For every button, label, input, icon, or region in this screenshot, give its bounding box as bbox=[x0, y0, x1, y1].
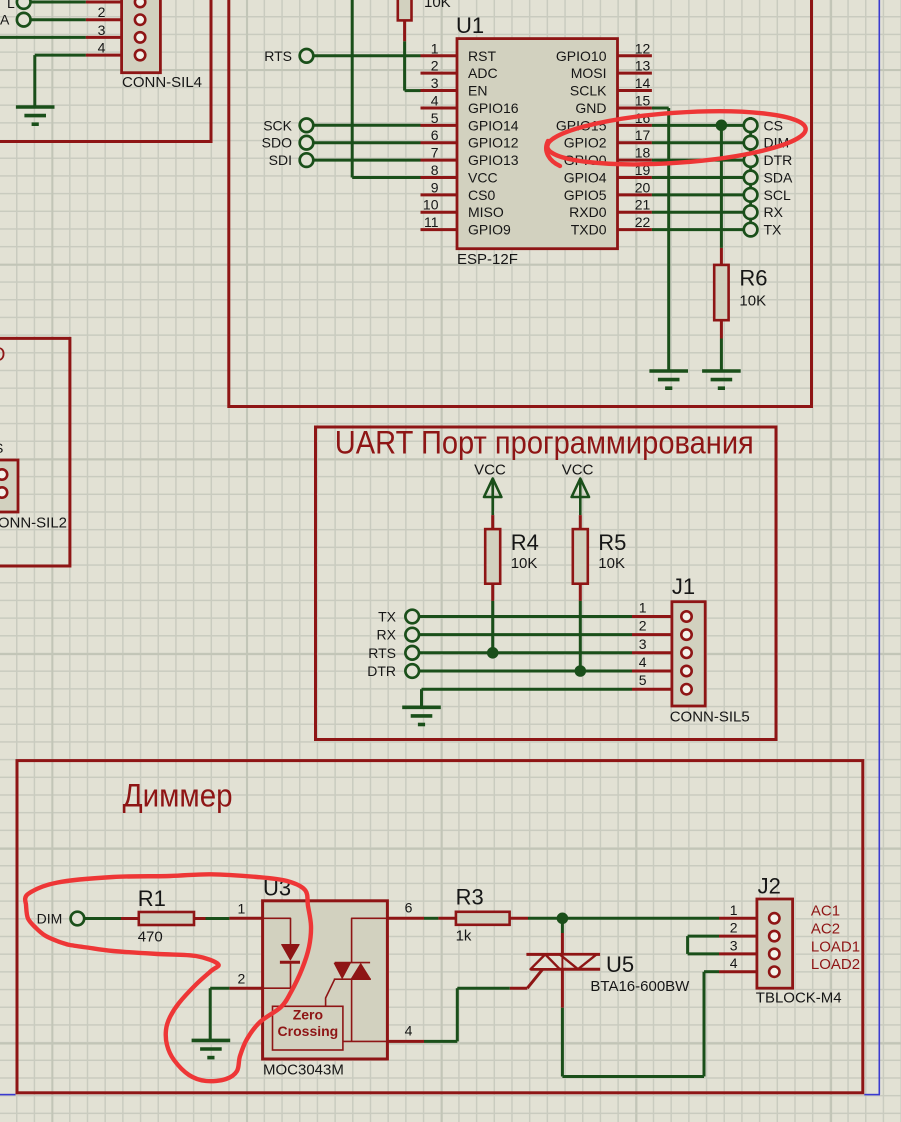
sheet border blue vertical bbox=[878, 0, 880, 1095]
svg-text:2: 2 bbox=[639, 618, 647, 634]
sub-circuit box Dimmer bbox=[17, 761, 863, 1093]
svg-text:4: 4 bbox=[639, 654, 647, 670]
svg-text:Диммер: Диммер bbox=[123, 778, 233, 814]
svg-text:MOSI: MOSI bbox=[571, 65, 607, 81]
wire DIM to R1 bbox=[84, 917, 121, 920]
svg-text:20: 20 bbox=[635, 179, 651, 195]
wire GND pin15 to ground bbox=[652, 107, 669, 110]
CONN-SIL4 pin circles bbox=[135, 0, 145, 7]
optocoupler U3 body bbox=[263, 901, 388, 1059]
svg-text:3: 3 bbox=[730, 937, 738, 953]
svg-text:RX: RX bbox=[764, 204, 784, 220]
pin stubs J? CONN-SIL4 bbox=[86, 1, 135, 4]
svg-text:3: 3 bbox=[431, 75, 439, 91]
wire R1 to U3 pin1 bbox=[206, 917, 230, 920]
svg-text:4: 4 bbox=[98, 40, 106, 56]
connector CONN-SIL4 body bbox=[122, 0, 161, 73]
sub-circuit box (top-left) bbox=[0, 0, 211, 142]
sub-circuit box (left, CONN-SIL2) bbox=[0, 338, 70, 566]
J2 pin stubs bbox=[719, 917, 769, 920]
svg-text:15: 15 bbox=[635, 92, 651, 108]
svg-text:TXD0: TXD0 bbox=[571, 222, 607, 238]
svg-text:10K: 10K bbox=[598, 555, 625, 572]
svg-text:GPIO13: GPIO13 bbox=[468, 152, 519, 168]
wire U5 to J2 pin4 bbox=[561, 1008, 564, 1077]
wire R4 down bbox=[491, 601, 494, 653]
resistor R1 bbox=[121, 917, 139, 920]
wire R5 down bbox=[579, 601, 582, 671]
svg-text:RXD0: RXD0 bbox=[569, 204, 607, 220]
U1 left pin stubs 1-11 bbox=[421, 54, 458, 57]
U3 internal triac bbox=[335, 962, 370, 964]
CONN-SIL2 pin circles bbox=[0, 469, 7, 479]
svg-text:4: 4 bbox=[431, 92, 439, 108]
chip U1 body bbox=[457, 39, 618, 249]
terminal SCL bbox=[744, 188, 758, 202]
svg-text:VCC: VCC bbox=[474, 462, 506, 479]
svg-text:GPIO4: GPIO4 bbox=[564, 169, 607, 185]
wire row4 to ground bbox=[35, 54, 86, 57]
wire R6 to ground bbox=[720, 339, 723, 372]
svg-text:GPIO10: GPIO10 bbox=[556, 48, 607, 64]
U5 gate lead bbox=[510, 987, 528, 990]
wire pin4 to U5 gate bbox=[424, 1040, 457, 1043]
wire TX to J1 bbox=[419, 615, 632, 618]
svg-text:5: 5 bbox=[431, 110, 439, 126]
svg-text:SDA: SDA bbox=[764, 169, 793, 185]
svg-text:BTA16-600BW: BTA16-600BW bbox=[590, 978, 690, 995]
wire RTS to pin1 bbox=[313, 54, 421, 57]
junction node (R5) bbox=[575, 666, 586, 677]
connector J2 body bbox=[757, 899, 793, 988]
wire R3 to J2 pin1 bbox=[528, 917, 719, 920]
triac U5 bbox=[561, 918, 564, 933]
J1 pin stubs bbox=[632, 615, 681, 618]
svg-text:SCK: SCK bbox=[263, 117, 292, 133]
svg-text:DTR: DTR bbox=[367, 663, 396, 679]
svg-text:GPIO12: GPIO12 bbox=[468, 135, 519, 151]
svg-text:3: 3 bbox=[639, 636, 647, 652]
svg-text:470: 470 bbox=[138, 929, 163, 946]
svg-text:TX: TX bbox=[378, 609, 397, 625]
connector J1 body bbox=[672, 602, 705, 706]
terminal chain stub bbox=[749, 117, 752, 230]
junction node (R4) bbox=[487, 648, 498, 659]
wire SCK to pin5 bbox=[313, 124, 421, 127]
resistor R4 bbox=[491, 515, 494, 529]
svg-text:J2: J2 bbox=[758, 873, 781, 898]
svg-text:10K: 10K bbox=[511, 555, 538, 572]
wire RX to J1 bbox=[419, 633, 632, 636]
svg-text:MOC3043M: MOC3043M bbox=[263, 1062, 344, 1079]
svg-text:CONN-SIL5: CONN-SIL5 bbox=[670, 709, 750, 726]
terminal DTR bbox=[744, 153, 758, 167]
annotation loop (DIM/R1/ground) bbox=[25, 874, 311, 1081]
svg-text:J1: J1 bbox=[672, 574, 695, 599]
svg-text:AC1: AC1 bbox=[811, 903, 840, 920]
wire SDI to pin7 bbox=[313, 159, 421, 162]
svg-text:LOAD2: LOAD2 bbox=[811, 956, 860, 973]
svg-text:1: 1 bbox=[639, 600, 647, 616]
svg-text:12: 12 bbox=[635, 40, 651, 56]
svg-text:R3: R3 bbox=[456, 885, 484, 910]
svg-text:DIM: DIM bbox=[37, 911, 63, 927]
svg-text:GPIO5: GPIO5 bbox=[564, 187, 607, 203]
svg-text:TX: TX bbox=[764, 222, 783, 238]
svg-text:R1: R1 bbox=[138, 886, 166, 911]
svg-text:1k: 1k bbox=[456, 928, 472, 945]
U3 LED diode bbox=[282, 945, 300, 960]
svg-text:AC2: AC2 bbox=[811, 921, 840, 938]
svg-text:CONN-SIL2: CONN-SIL2 bbox=[0, 515, 67, 532]
U3 zero crossing block bbox=[273, 1006, 343, 1050]
U3 internal triac wiring bbox=[352, 918, 388, 962]
svg-text:TBLOCK-M4: TBLOCK-M4 bbox=[756, 990, 842, 1007]
svg-text:S: S bbox=[0, 440, 3, 456]
svg-text:4: 4 bbox=[730, 955, 738, 971]
svg-text:3: 3 bbox=[98, 22, 106, 38]
svg-text:CONN-SIL4: CONN-SIL4 bbox=[122, 74, 202, 91]
svg-text:R4: R4 bbox=[511, 530, 539, 555]
svg-text:R6: R6 bbox=[739, 266, 767, 291]
resistor R3 bbox=[438, 917, 456, 920]
svg-text:MISO: MISO bbox=[468, 204, 504, 220]
svg-text:ADC: ADC bbox=[468, 65, 498, 81]
svg-text:D: D bbox=[0, 344, 5, 366]
svg-text:6: 6 bbox=[431, 127, 439, 143]
wire J2 pins 2-3 link bbox=[688, 935, 719, 938]
ground (U3) bbox=[192, 1040, 231, 1057]
svg-text:8: 8 bbox=[431, 162, 439, 178]
svg-text:R5: R5 bbox=[598, 530, 626, 555]
svg-text:6: 6 bbox=[405, 900, 413, 916]
svg-text:14: 14 bbox=[635, 75, 651, 91]
junction node GPIO15/R6 bbox=[716, 120, 727, 131]
svg-text:13: 13 bbox=[635, 58, 651, 74]
svg-text:GPIO16: GPIO16 bbox=[468, 100, 519, 116]
svg-text:Crossing: Crossing bbox=[278, 1023, 339, 1039]
svg-text:RTS: RTS bbox=[368, 645, 396, 661]
U3 pin2 stub bbox=[229, 987, 262, 990]
svg-text:GND: GND bbox=[575, 100, 606, 116]
svg-text:4: 4 bbox=[405, 1023, 413, 1039]
svg-text:U1: U1 bbox=[456, 13, 484, 38]
U3 pin4 stub bbox=[387, 1040, 424, 1043]
wire DTR to J1 bbox=[419, 670, 632, 673]
svg-text:22: 22 bbox=[635, 214, 651, 230]
svg-text:18: 18 bbox=[635, 145, 651, 161]
svg-text:2: 2 bbox=[238, 971, 246, 987]
svg-text:1: 1 bbox=[431, 40, 439, 56]
wire J1 pin5 to ground bbox=[422, 688, 633, 691]
U3 pin1 stub bbox=[229, 917, 262, 920]
svg-text:SDI: SDI bbox=[269, 152, 292, 168]
svg-text:9: 9 bbox=[431, 179, 439, 195]
svg-text:11: 11 bbox=[424, 214, 439, 230]
svg-text:10: 10 bbox=[423, 197, 439, 213]
U1 right pin stubs 12-22 bbox=[618, 54, 652, 57]
svg-text:GPIO9: GPIO9 bbox=[468, 222, 511, 238]
svg-text:DTR: DTR bbox=[764, 152, 793, 168]
sub-circuit box (U1 / ESP-12F) bbox=[229, 0, 812, 407]
resistor R5 bbox=[579, 515, 582, 529]
svg-text:A: A bbox=[0, 12, 10, 28]
svg-text:CS: CS bbox=[764, 117, 783, 133]
sub-circuit box UART bbox=[316, 427, 777, 740]
wire VCC vertical bbox=[351, 0, 354, 178]
wire U3 pin2 to ground bbox=[210, 987, 229, 990]
svg-text:RTS: RTS bbox=[264, 48, 292, 64]
J1 pin circles bbox=[681, 611, 691, 621]
terminal TX bbox=[744, 223, 758, 237]
wire SDO to pin6 bbox=[313, 141, 421, 144]
svg-text:SDO: SDO bbox=[262, 135, 292, 151]
svg-text:1: 1 bbox=[730, 902, 738, 918]
terminal RX bbox=[744, 205, 758, 219]
svg-text:VCC: VCC bbox=[562, 462, 594, 479]
svg-text:U5: U5 bbox=[606, 952, 634, 977]
svg-text:Zero: Zero bbox=[293, 1007, 323, 1023]
svg-text:GPIO14: GPIO14 bbox=[468, 117, 519, 133]
svg-text:2: 2 bbox=[431, 58, 439, 74]
U3 internal pin4 wiring bbox=[343, 1040, 388, 1042]
sheet border blue bottom bbox=[0, 1094, 16, 1096]
wire row3 bbox=[0, 36, 86, 39]
J2 pin circles bbox=[769, 913, 779, 923]
svg-text:2: 2 bbox=[730, 920, 738, 936]
svg-text:10K: 10K bbox=[424, 0, 451, 11]
terminal DIM bbox=[744, 136, 758, 150]
svg-text:21: 21 bbox=[635, 197, 651, 213]
ground (U1 GND) bbox=[649, 371, 688, 388]
annotation ellipse (GPIO15/GPIO2 to CS/DIM) bbox=[546, 104, 808, 172]
svg-text:L: L bbox=[7, 0, 15, 11]
connector CONN-SIL2 body bbox=[0, 460, 18, 512]
U3 gate wiring bbox=[326, 979, 335, 1006]
svg-text:CS0: CS0 bbox=[468, 187, 495, 203]
wire RTS to J1 bbox=[419, 651, 632, 654]
ground (R6) bbox=[702, 371, 741, 388]
junction node (R3/U5) bbox=[557, 913, 568, 924]
terminal SDA bbox=[744, 171, 758, 185]
svg-text:2: 2 bbox=[98, 4, 106, 20]
svg-text:GPIO2: GPIO2 bbox=[564, 135, 607, 151]
svg-text:SCLK: SCLK bbox=[570, 83, 607, 99]
terminal CS bbox=[744, 119, 758, 133]
svg-text:ESP-12F: ESP-12F bbox=[457, 251, 518, 268]
svg-text:EN: EN bbox=[468, 83, 487, 99]
resistor R6 bbox=[720, 248, 723, 265]
ground (J1) bbox=[402, 707, 441, 724]
svg-text:UART Порт программирования: UART Порт программирования bbox=[335, 425, 754, 461]
svg-text:10K: 10K bbox=[739, 292, 766, 309]
U3 internal LED wiring bbox=[263, 918, 291, 944]
wires GPIO15..TXD0 to terminals bbox=[652, 124, 744, 127]
svg-text:5: 5 bbox=[639, 672, 647, 688]
wire pin6 to R3 bbox=[424, 917, 438, 920]
wire R2 to EN bbox=[403, 41, 406, 90]
svg-text:7: 7 bbox=[431, 145, 439, 161]
svg-text:17: 17 bbox=[635, 127, 651, 143]
svg-text:1: 1 bbox=[238, 901, 246, 917]
svg-text:RX: RX bbox=[377, 627, 397, 643]
svg-text:VCC: VCC bbox=[468, 169, 498, 185]
wire vertical to R6 bbox=[720, 125, 723, 248]
svg-text:SCL: SCL bbox=[764, 187, 791, 203]
svg-text:LOAD1: LOAD1 bbox=[811, 938, 860, 955]
U3 pin6 stub bbox=[387, 917, 424, 920]
resistor R2 (cut at top) bbox=[398, 0, 412, 20]
svg-text:RST: RST bbox=[468, 48, 496, 64]
ground (CONN-SIL4 block) bbox=[16, 107, 55, 124]
